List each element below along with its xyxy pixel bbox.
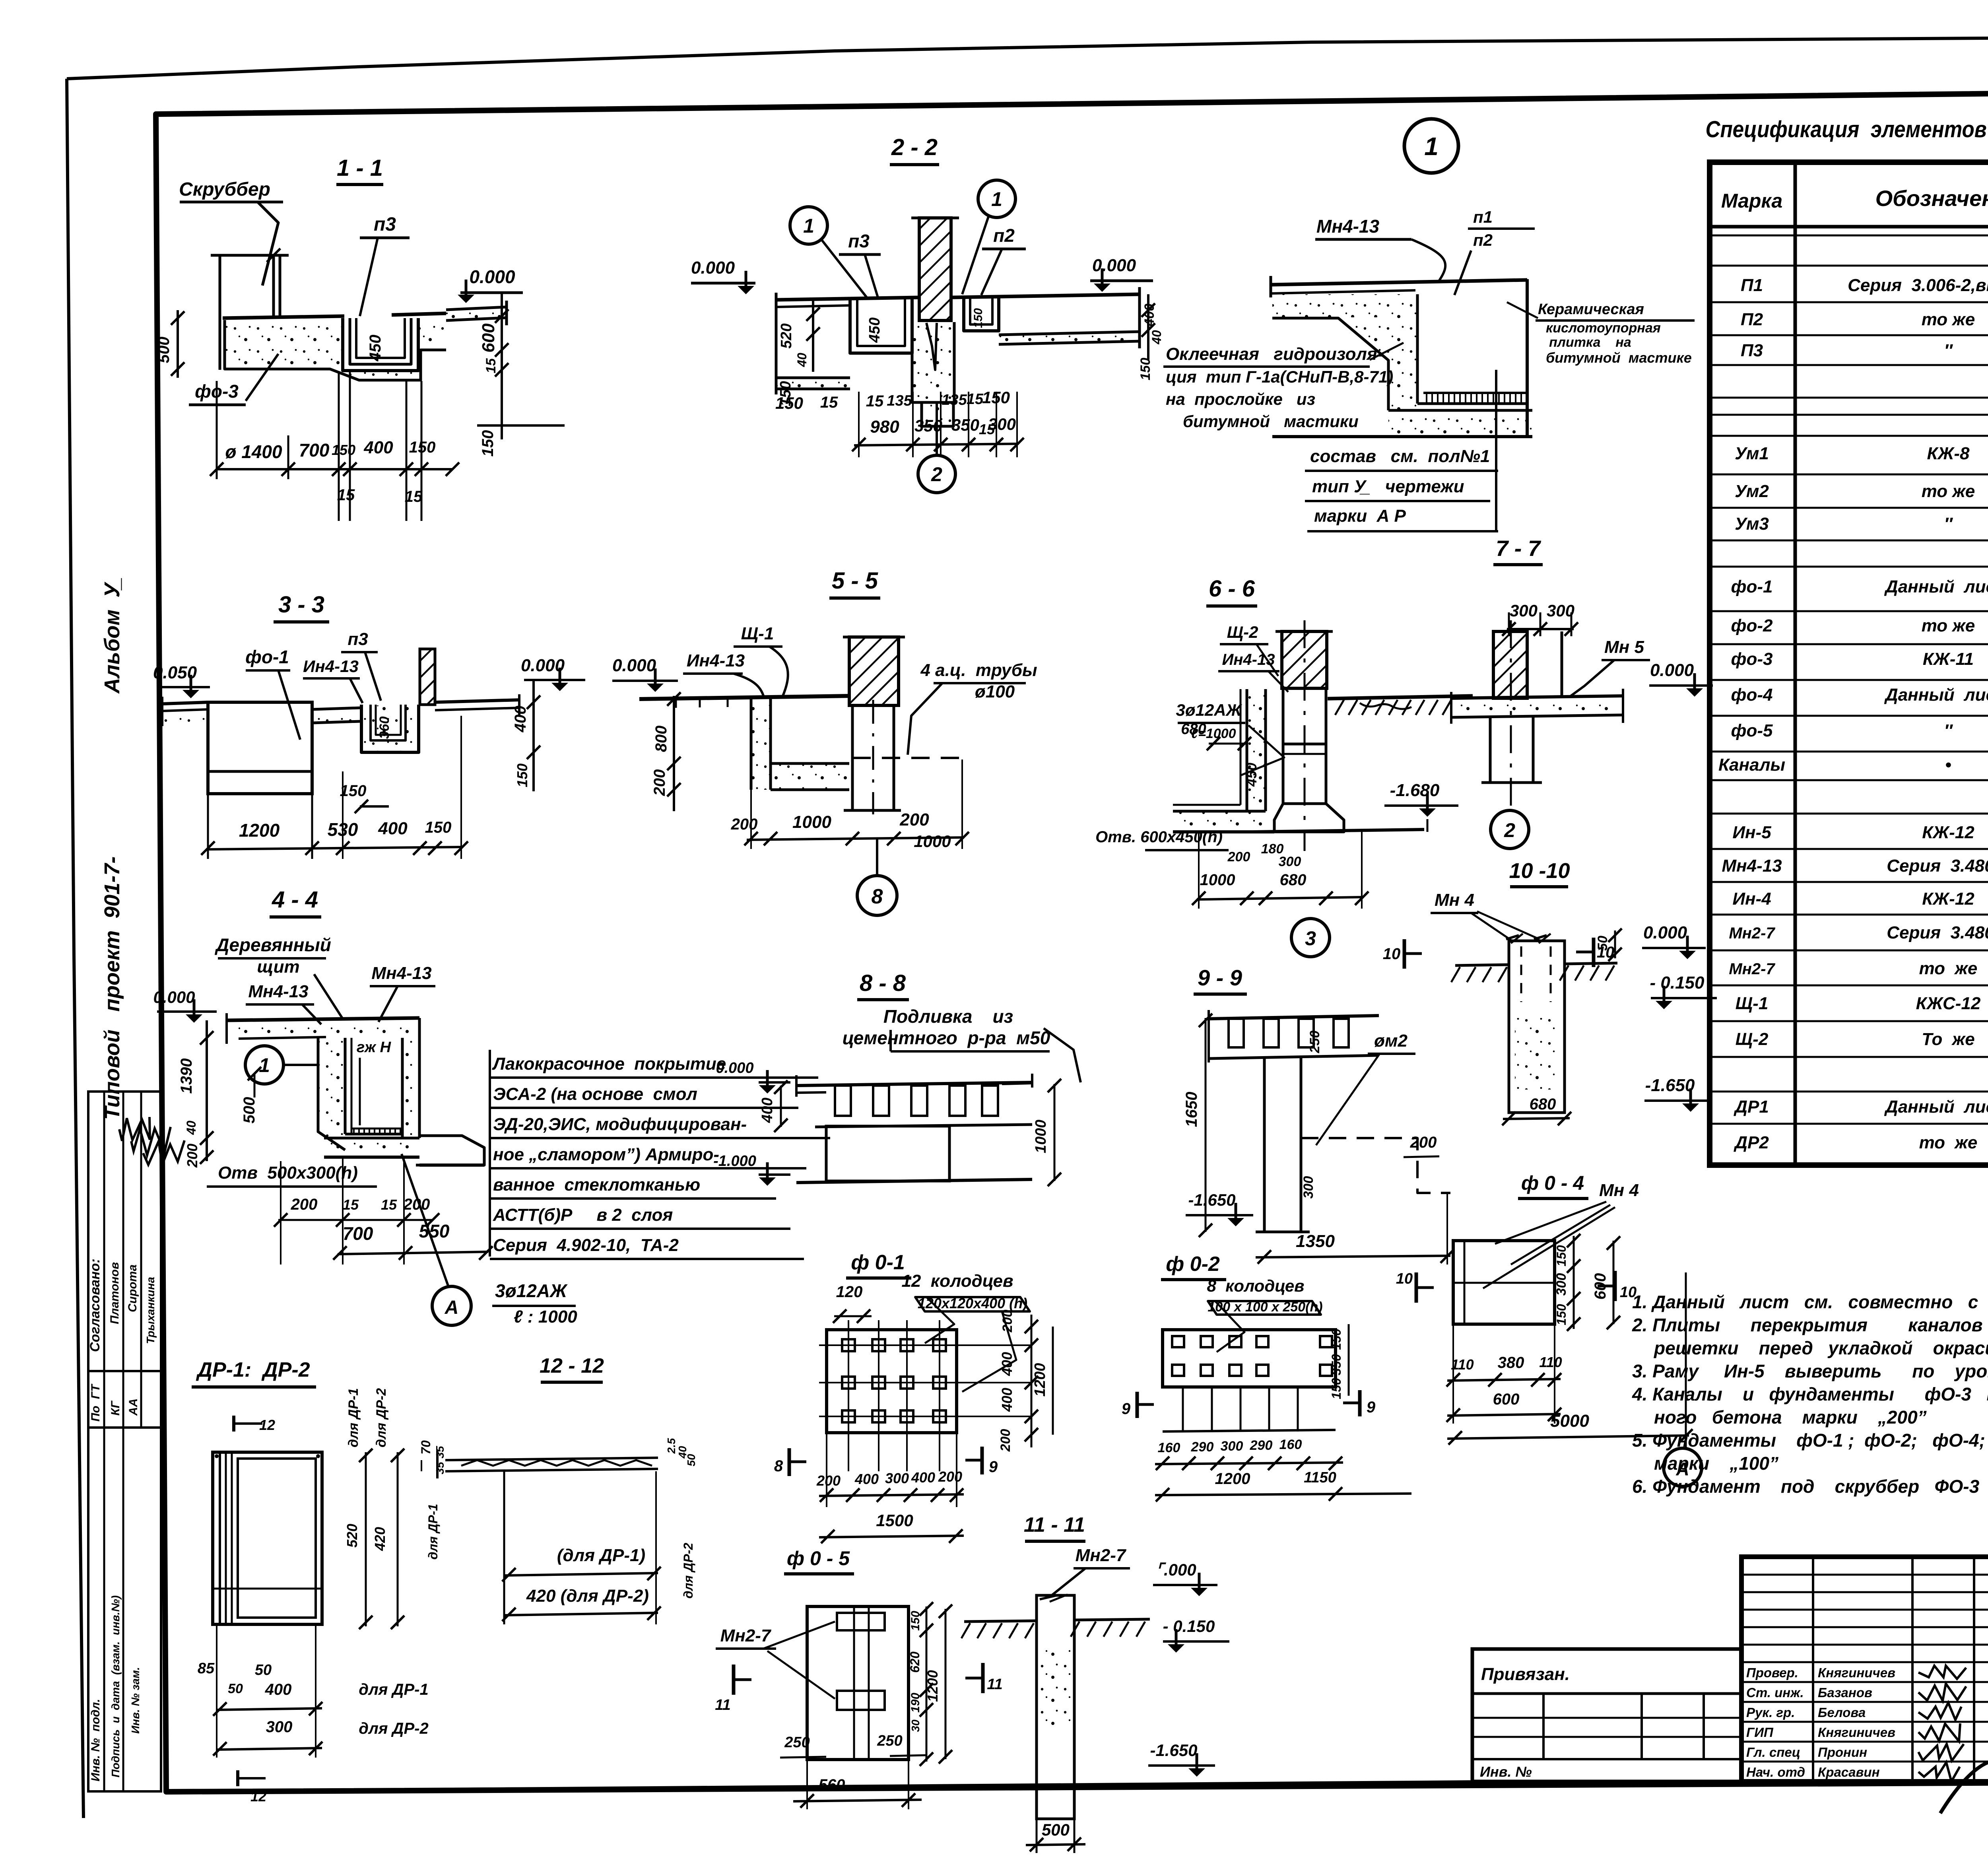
svg-text:1000: 1000 xyxy=(914,832,951,851)
svg-text:фо-1: фо-1 xyxy=(1731,577,1773,596)
section 2-2 foundation under wall xyxy=(913,322,953,402)
svg-text:Ст. инж.: Ст. инж. xyxy=(1746,1685,1804,1700)
fo-4 right dims xyxy=(1573,1236,1575,1329)
svg-text:марки А Р: марки А Р xyxy=(1314,506,1406,526)
section 5-5 bottom chain xyxy=(747,837,964,840)
svg-text:1: 1 xyxy=(259,1054,270,1076)
title block big signature xyxy=(1940,1759,1988,1814)
svg-text:″: ″ xyxy=(1944,341,1953,360)
section 8-8 grate xyxy=(796,1082,1032,1086)
svg-text:50: 50 xyxy=(228,1681,243,1696)
svg-text:400: 400 xyxy=(378,819,408,838)
svg-text:9: 9 xyxy=(1122,1400,1131,1418)
svg-text:Мн4-13: Мн4-13 xyxy=(371,963,431,983)
section 6-6 450 dim xyxy=(1243,763,1260,787)
svg-text:680: 680 xyxy=(1280,871,1307,889)
section 12-12 right dims xyxy=(665,1438,678,1454)
svg-text:цементного р-ра м50: цементного р-ра м50 xyxy=(843,1028,1050,1048)
section 5-5 ground slab line xyxy=(639,696,851,699)
section 1-1 left dim 500 xyxy=(155,337,173,363)
section 4-4 pit walls xyxy=(318,1038,345,1150)
svg-text:øм2: øм2 xyxy=(1374,1031,1408,1051)
section 9-9 dims xyxy=(1183,1092,1200,1127)
svg-text:10: 10 xyxy=(1620,1284,1637,1301)
svg-text:По ГТ: По ГТ xyxy=(89,1383,102,1422)
svg-text:состав см. пол№1: состав см. пол№1 xyxy=(1310,447,1490,466)
svg-text:40: 40 xyxy=(795,353,809,367)
svg-text:КЖ-12: КЖ-12 xyxy=(1922,889,1974,909)
svg-text:1390: 1390 xyxy=(178,1059,195,1094)
svg-text:Гл. спец: Гл. спец xyxy=(1746,1745,1800,1760)
svg-text:″: ″ xyxy=(1944,721,1953,740)
svg-text:Красавин: Красавин xyxy=(1818,1765,1880,1779)
svg-text:40: 40 xyxy=(1149,330,1164,345)
svg-text:2 - 2: 2 - 2 xyxy=(891,134,938,160)
section 7-7 right edge xyxy=(1526,279,1529,437)
svg-text:″: ″ xyxy=(1944,514,1953,534)
svg-text:600: 600 xyxy=(479,323,498,353)
privyazan box xyxy=(1472,1649,1741,1781)
svg-text:ℓ=1000: ℓ=1000 xyxy=(1191,726,1236,741)
svg-text:150: 150 xyxy=(479,430,497,457)
svg-text:КЖС-12: КЖС-12 xyxy=(1916,994,1981,1013)
section 3-3 bottom chain xyxy=(207,847,463,849)
svg-text:то же: то же xyxy=(1922,616,1975,635)
section 10-10 cut marks xyxy=(1403,939,1406,969)
svg-text:Провер.: Провер. xyxy=(1746,1665,1798,1680)
svg-text:то же: то же xyxy=(1922,482,1975,501)
margin box inv xyxy=(88,1428,161,1791)
svg-text:120: 120 xyxy=(836,1283,863,1301)
svg-text:Сирота: Сирота xyxy=(126,1265,139,1312)
svg-text:8 колодцев: 8 колодцев xyxy=(1207,1276,1304,1295)
svg-text:350: 350 xyxy=(1329,1354,1343,1375)
svg-text:400: 400 xyxy=(999,1388,1015,1412)
svg-text:Подливка из: Подливка из xyxy=(883,1006,1013,1027)
svg-text:гж Н: гж Н xyxy=(357,1039,392,1056)
svg-text:150: 150 xyxy=(1329,1378,1343,1399)
svg-text:для ДР-2: для ДР-2 xyxy=(374,1388,389,1447)
svg-text:10: 10 xyxy=(1396,1270,1413,1287)
section 5-5 left dims xyxy=(673,696,675,811)
svg-text:400: 400 xyxy=(854,1471,879,1487)
svg-text:Ин-5: Ин-5 xyxy=(1732,823,1771,842)
svg-text:9: 9 xyxy=(989,1458,998,1476)
svg-text:ЭСА-2 (на основе смол: ЭСА-2 (на основе смол xyxy=(493,1084,697,1104)
frame bottom inner line xyxy=(166,1782,1472,1792)
section 1-1 foundation concrete xyxy=(225,321,342,369)
svg-text:1200: 1200 xyxy=(924,1670,941,1702)
spec table column lines xyxy=(1794,162,1797,1165)
section 6-6 wall hatched xyxy=(1282,631,1327,688)
svg-text:150: 150 xyxy=(514,763,530,787)
svg-text:9 - 9: 9 - 9 xyxy=(1198,965,1242,990)
svg-text:520: 520 xyxy=(778,323,795,348)
svg-text:Скруббер: Скруббер xyxy=(179,179,270,200)
svg-text:35: 35 xyxy=(434,1462,446,1474)
svg-text:150: 150 xyxy=(409,439,436,456)
section 7-7 slab xyxy=(1271,280,1527,285)
svg-text:Отв 500х300(h): Отв 500х300(h) xyxy=(218,1163,358,1183)
paper edge top xyxy=(67,35,1988,79)
svg-text:5000: 5000 xyxy=(1550,1411,1589,1431)
svg-text:5 - 5: 5 - 5 xyxy=(832,568,878,594)
svg-text:Княгиничев: Княгиничев xyxy=(1818,1665,1895,1680)
svg-text:1500: 1500 xyxy=(876,1511,913,1530)
svg-text:980: 980 xyxy=(870,417,899,437)
svg-text:135: 135 xyxy=(942,392,967,408)
svg-text:400: 400 xyxy=(265,1681,292,1698)
svg-text:110: 110 xyxy=(1451,1356,1474,1373)
svg-text:Подпись и дата (взам. инв.: Подпись и дата (взам. инв.№) xyxy=(109,1595,122,1777)
margin box gt kg xyxy=(88,1371,161,1428)
svg-text:50: 50 xyxy=(255,1662,272,1678)
svg-text:КЖ-11: КЖ-11 xyxy=(1923,649,1974,669)
svg-text:фо-1: фо-1 xyxy=(245,647,289,667)
svg-text:Обозначение: Обозначение xyxy=(1875,186,1988,211)
svg-text:11: 11 xyxy=(715,1697,730,1713)
svg-text:50: 50 xyxy=(685,1454,697,1467)
paper edge left xyxy=(67,79,83,1818)
svg-text:КГ: КГ xyxy=(109,1400,122,1416)
section 10-10 column xyxy=(1509,941,1565,1113)
svg-text:1 - 1: 1 - 1 xyxy=(337,155,383,181)
svg-text:3 - 3: 3 - 3 xyxy=(278,592,324,618)
svg-text:1: 1 xyxy=(803,215,814,237)
svg-text:КЖ-8: КЖ-8 xyxy=(1927,444,1970,463)
svg-text:Мн 4: Мн 4 xyxy=(1599,1181,1639,1200)
svg-text:Серия 3.480-6: Серия 3.480-6 xyxy=(1887,856,1988,876)
svg-text:250: 250 xyxy=(784,1734,810,1751)
svg-text:1000: 1000 xyxy=(1200,871,1235,889)
svg-text:Щ-1: Щ-1 xyxy=(741,624,774,643)
svg-text:300: 300 xyxy=(1221,1439,1243,1454)
svg-text:Щ-2: Щ-2 xyxy=(1227,623,1258,641)
svg-text:150: 150 xyxy=(1329,1329,1343,1350)
svg-text:420 (для ДР-2): 420 (для ДР-2) xyxy=(526,1586,649,1606)
svg-text:Керамическая: Керамическая xyxy=(1538,301,1644,318)
svg-text:ГИП: ГИП xyxy=(1746,1725,1774,1740)
svg-text:0.000: 0.000 xyxy=(1643,923,1687,942)
svg-text:Ум1: Ум1 xyxy=(1735,444,1769,463)
section 4-4 right footing xyxy=(416,1136,484,1165)
svg-text:150: 150 xyxy=(340,782,367,800)
svg-text:ø 1400: ø 1400 xyxy=(225,441,282,462)
svg-text:фо-3: фо-3 xyxy=(1731,649,1773,669)
svg-text:15: 15 xyxy=(820,394,838,411)
svg-text:550: 550 xyxy=(419,1221,450,1241)
svg-text:400: 400 xyxy=(759,1097,776,1123)
svg-text:для ДР-1: для ДР-1 xyxy=(359,1681,428,1698)
svg-text:400: 400 xyxy=(512,706,529,733)
svg-text:фо-4: фо-4 xyxy=(1731,685,1773,705)
dr vertical texts xyxy=(346,1388,361,1447)
svg-text:-1.680: -1.680 xyxy=(1390,781,1440,800)
svg-text:Деревянный: Деревянный xyxy=(214,934,331,955)
svg-text:300: 300 xyxy=(988,415,1016,433)
svg-text:200: 200 xyxy=(998,1429,1013,1452)
margin text album xyxy=(100,578,124,694)
svg-text:А: А xyxy=(445,1297,459,1318)
svg-text:400: 400 xyxy=(1142,304,1157,327)
svg-text:Лакокрасочное покрытие: Лакокрасочное покрытие xyxy=(492,1054,726,1074)
svg-text:ДР1: ДР1 xyxy=(1733,1097,1769,1117)
svg-text:12 - 12: 12 - 12 xyxy=(540,1354,604,1377)
svg-text:Нач. отд: Нач. отд xyxy=(1746,1765,1805,1779)
section 2-2 balloon 2 xyxy=(918,455,955,493)
svg-text:Каналы: Каналы xyxy=(1718,755,1785,775)
svg-text:Согласовано:: Согласовано: xyxy=(87,1259,103,1352)
svg-text:500: 500 xyxy=(155,337,173,363)
svg-text:Серия 3.480-6: Серия 3.480-6 xyxy=(1887,923,1988,942)
svg-text:150: 150 xyxy=(425,819,452,836)
section 2-2 right slab xyxy=(951,294,1140,297)
section 12-12 left dims xyxy=(419,1440,433,1455)
svg-text:290: 290 xyxy=(1191,1439,1214,1455)
svg-text:п3: п3 xyxy=(848,231,870,251)
svg-text:Инв. №: Инв. № xyxy=(1480,1764,1532,1780)
section 4-4 slab xyxy=(239,1022,419,1038)
svg-text:ного бетона марки „200: ного бетона марки „200” xyxy=(1654,1407,1927,1428)
svg-text:30: 30 xyxy=(909,1719,922,1732)
section 7-7 tile band xyxy=(1423,392,1527,394)
svg-text:400: 400 xyxy=(999,1352,1015,1376)
section 2-2 left channel xyxy=(850,299,912,353)
section 3-3 pit xyxy=(208,702,312,794)
svg-text:ное „сламором”) Армиро-: ное „сламором”) Армиро- xyxy=(493,1145,719,1164)
svg-text:ø100: ø100 xyxy=(975,682,1015,701)
svg-text:9: 9 xyxy=(1367,1399,1376,1416)
svg-text:для ДР-1: для ДР-1 xyxy=(346,1388,361,1447)
section 2-2 wall hatched xyxy=(919,218,951,320)
svg-text:150: 150 xyxy=(909,1611,922,1631)
svg-text:150: 150 xyxy=(775,394,803,412)
svg-text:15: 15 xyxy=(866,392,884,410)
svg-text:450: 450 xyxy=(1243,763,1260,787)
svg-text:⌜.000: ⌜.000 xyxy=(1156,1560,1196,1579)
section 2-2 dim chain xyxy=(854,444,1019,445)
section 1-1 right dims xyxy=(501,293,503,439)
fo-4 cut marks xyxy=(1415,1272,1418,1303)
section 9-9 grate xyxy=(1209,1016,1379,1019)
svg-text:290: 290 xyxy=(1250,1438,1273,1453)
section 4-4 balloon 1 xyxy=(245,1046,283,1084)
svg-text:300: 300 xyxy=(266,1718,293,1736)
section 6-6 center line xyxy=(1304,620,1306,851)
svg-text:Княгиничев: Княгиничев xyxy=(1818,1725,1895,1740)
svg-text:на прослойке из: на прослойке из xyxy=(1166,390,1315,408)
svg-text:Рук. гр.: Рук. гр. xyxy=(1746,1705,1795,1720)
svg-text:11 - 11: 11 - 11 xyxy=(1024,1513,1085,1536)
svg-text:0.000: 0.000 xyxy=(716,1060,753,1076)
section 5-5 pipe below wall xyxy=(851,705,854,810)
svg-text:0.000: 0.000 xyxy=(153,988,195,1006)
svg-text:200: 200 xyxy=(731,816,758,833)
svg-text:700: 700 xyxy=(343,1223,373,1244)
svg-text:- 0.150: - 0.150 xyxy=(1163,1617,1215,1636)
section 2-2 balloon 1 left xyxy=(790,207,827,244)
svg-text:щит: щит xyxy=(257,957,299,977)
svg-text:Базанов: Базанов xyxy=(1818,1685,1872,1700)
svg-text:Щ-2: Щ-2 xyxy=(1736,1029,1769,1049)
section 3-3 channel xyxy=(361,705,419,752)
svg-text:300: 300 xyxy=(1279,854,1301,869)
svg-text:•: • xyxy=(1945,755,1951,775)
fo-5 cut marks xyxy=(732,1665,736,1695)
svg-text:110: 110 xyxy=(1539,1354,1562,1370)
svg-text:200: 200 xyxy=(899,810,929,829)
svg-text:-1.650: -1.650 xyxy=(1188,1191,1235,1209)
fo-2 cut marks xyxy=(1136,1392,1139,1418)
svg-text:Ин4-13: Ин4-13 xyxy=(1222,651,1275,668)
svg-text:0.000: 0.000 xyxy=(691,258,735,278)
svg-text:40: 40 xyxy=(184,1121,198,1135)
svg-text:380: 380 xyxy=(1498,1354,1524,1371)
svg-text:8 - 8: 8 - 8 xyxy=(860,970,906,996)
svg-text:Данный лист: Данный лист xyxy=(1884,685,1988,705)
svg-text:200: 200 xyxy=(816,1472,841,1489)
svg-text:1200: 1200 xyxy=(1215,1470,1250,1488)
section 4-4 pit liner xyxy=(344,1038,347,1134)
svg-text:п2: п2 xyxy=(993,225,1015,246)
svg-text:то же: то же xyxy=(1919,1133,1978,1152)
svg-text:4 а.ц. трубы: 4 а.ц. трубы xyxy=(920,660,1037,680)
svg-text:АА: АА xyxy=(127,1399,140,1416)
svg-text:Типовой проект 901-7-: Типовой проект 901-7- xyxy=(100,857,124,1120)
svg-text:Инв. № зам.: Инв. № зам. xyxy=(129,1667,142,1734)
svg-text:ф 0 - 4: ф 0 - 4 xyxy=(1521,1172,1584,1194)
svg-text:ЭД-20,ЭИС, модифицирован-: ЭД-20,ЭИС, модифицирован- xyxy=(493,1115,747,1134)
svg-text:Мн4-13: Мн4-13 xyxy=(248,982,308,1001)
fo-4 bottom dims xyxy=(1447,1379,1561,1381)
svg-text:1650: 1650 xyxy=(1183,1092,1200,1127)
svg-text:420: 420 xyxy=(372,1527,388,1551)
balloon A right xyxy=(1664,1448,1702,1486)
svg-text:Мн4-13: Мн4-13 xyxy=(1722,856,1782,876)
svg-text:-1.650: -1.650 xyxy=(1150,1741,1197,1760)
svg-text:Отв. 600х450(h): Отв. 600х450(h) xyxy=(1095,828,1223,846)
svg-text:Мн4-13: Мн4-13 xyxy=(1316,216,1380,237)
section 11-11 ground xyxy=(964,1621,1037,1622)
svg-text:(для ДР-1): (для ДР-1) xyxy=(557,1546,645,1565)
svg-text:300: 300 xyxy=(1301,1176,1316,1199)
svg-text:Щ-1: Щ-1 xyxy=(1736,994,1769,1013)
section 12-12 plank xyxy=(445,1458,658,1460)
svg-text:для ДР-1: для ДР-1 xyxy=(426,1504,440,1560)
svg-text:Ум3: Ум3 xyxy=(1735,514,1769,534)
section 5-5 dashed line xyxy=(852,757,964,759)
svg-text:200: 200 xyxy=(1000,1310,1015,1333)
axis2 section pile xyxy=(1489,717,1492,783)
spec table frame xyxy=(1710,162,1988,1165)
svg-text:0.000: 0.000 xyxy=(469,266,515,287)
svg-text:Марка: Марка xyxy=(1721,190,1782,212)
svg-text:3ø12АЖ: 3ø12АЖ xyxy=(495,1280,568,1301)
title block left grid xyxy=(1741,1574,1988,1576)
svg-text:фо-5: фо-5 xyxy=(1731,721,1773,740)
margin text project xyxy=(100,857,124,1120)
section 11-11 column xyxy=(1037,1595,1074,1819)
svg-text:15: 15 xyxy=(483,358,499,373)
svg-text:15: 15 xyxy=(343,1197,359,1213)
svg-text:450: 450 xyxy=(866,317,883,343)
svg-text:350: 350 xyxy=(914,416,942,435)
svg-text:-1.650: -1.650 xyxy=(1645,1076,1695,1095)
section 3-3 right vert dim xyxy=(532,680,535,791)
title block frame xyxy=(1741,1557,1988,1781)
svg-text:Данный лист: Данный лист xyxy=(1884,1097,1988,1117)
svg-text:500: 500 xyxy=(1042,1820,1070,1839)
fo-2 elevation part xyxy=(1163,1386,1336,1389)
fo-5 plan rect xyxy=(807,1606,909,1760)
section 3-3 right slab xyxy=(435,700,520,702)
svg-text:ф 0 - 5: ф 0 - 5 xyxy=(787,1547,850,1569)
svg-text:2: 2 xyxy=(931,463,942,486)
svg-text:0.000: 0.000 xyxy=(521,656,565,675)
svg-text:10 -10: 10 -10 xyxy=(1509,859,1570,883)
svg-text:300: 300 xyxy=(1510,601,1538,620)
svg-text:600: 600 xyxy=(1493,1391,1520,1408)
svg-text:520: 520 xyxy=(344,1524,360,1548)
svg-text:Мн2-7: Мн2-7 xyxy=(1729,925,1775,942)
svg-text:200: 200 xyxy=(184,1144,200,1168)
svg-text:Серия 4.902-10, ТА-2: Серия 4.902-10, ТА-2 xyxy=(493,1235,679,1255)
section 1-1 channel xyxy=(343,318,418,371)
svg-text:10: 10 xyxy=(1597,944,1615,961)
fo-1 cut marks xyxy=(788,1448,791,1476)
svg-text:битумной мастике: битумной мастике xyxy=(1546,350,1692,366)
svg-text:2.5: 2.5 xyxy=(665,1438,678,1454)
svg-text:3: 3 xyxy=(1305,927,1316,950)
svg-text:п3: п3 xyxy=(374,214,396,235)
svg-text:Ин4-13: Ин4-13 xyxy=(687,651,745,670)
svg-text:150: 150 xyxy=(1554,1245,1569,1266)
section 3-3 wall hatched xyxy=(420,649,435,705)
svg-text:0.000: 0.000 xyxy=(612,656,656,675)
svg-text:620: 620 xyxy=(908,1651,922,1673)
section 8-8 right dim 1000 xyxy=(1054,1084,1056,1181)
svg-text:Альбом У̲: Альбом У̲ xyxy=(100,578,124,694)
svg-text:200: 200 xyxy=(291,1196,318,1213)
svg-text:Мн2-7: Мн2-7 xyxy=(720,1626,772,1645)
section 6-6 ground line xyxy=(1328,696,1473,699)
svg-text:ция тип Г-1а(СНиП-В,8-71): ция тип Г-1а(СНиП-В,8-71) xyxy=(1166,367,1393,386)
svg-text:Мн2-7: Мн2-7 xyxy=(1076,1546,1127,1565)
svg-text:п2: п2 xyxy=(1473,231,1493,249)
fo-2 plan rect xyxy=(1163,1330,1336,1387)
svg-text:700: 700 xyxy=(299,440,330,460)
section 3-3 mid slab xyxy=(313,710,361,722)
svg-text:Спецификация элементов к ма: Спецификация элементов к маркировочной с… xyxy=(1706,117,1988,142)
section 5-5 balloon 8 xyxy=(857,876,897,915)
fo-1 grid lines xyxy=(848,1320,849,1471)
svg-text:фо-2: фо-2 xyxy=(1731,616,1773,635)
svg-text:п3: п3 xyxy=(348,629,368,649)
svg-text:1000: 1000 xyxy=(1033,1120,1049,1154)
svg-text:Инв. № подл.: Инв. № подл. xyxy=(89,1699,102,1781)
spec table row lines xyxy=(1710,225,1988,229)
svg-text:85: 85 xyxy=(198,1660,215,1677)
section 3-3 slab left xyxy=(162,702,208,704)
section 5-5 floor slab xyxy=(771,764,848,789)
svg-text:1: 1 xyxy=(991,188,1002,210)
svg-text:Ум2: Ум2 xyxy=(1735,482,1769,501)
svg-text:1150: 1150 xyxy=(1304,1469,1336,1486)
margin approval signatures xyxy=(119,1117,150,1141)
section 1-1 scrubber pipe xyxy=(272,255,275,317)
svg-text:Мн 4: Мн 4 xyxy=(1435,890,1474,910)
svg-text:150: 150 xyxy=(1554,1304,1569,1325)
